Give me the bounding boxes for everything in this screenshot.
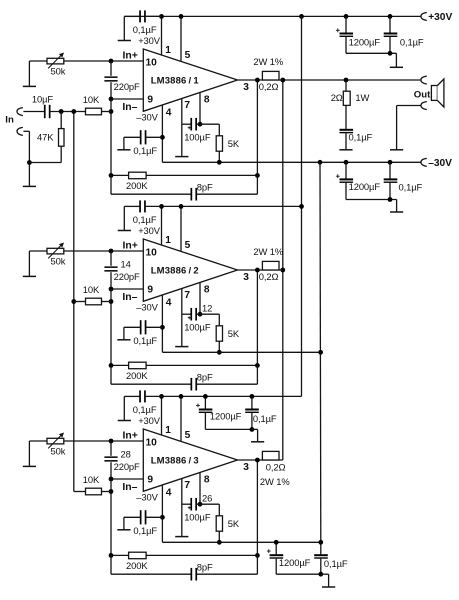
svg-text:0,1µF: 0,1µF (133, 335, 157, 346)
svg-text:50k: 50k (51, 446, 66, 457)
+30V feed bus to amps 2,3 (301, 16, 303, 396)
output bus wire (283, 79, 421, 81)
wire In- to op-amp (amp 1) (111, 98, 143, 100)
svg-text:LM3886 / 2: LM3886 / 2 (151, 266, 199, 277)
capacitor 0,1uF (+30V) (389, 16, 391, 32)
capacitor 100uF mute (amp 2) (182, 313, 191, 315)
connector Out (return) (421, 102, 427, 110)
-30V supply rail (162, 161, 420, 163)
capacitor 0,1uF (amp 3 -30V) (320, 542, 322, 554)
ground (pot) (amp 3) (28, 441, 30, 466)
svg-text:+30V: +30V (138, 225, 161, 236)
svg-text:0,1µF: 0,1µF (324, 558, 348, 569)
-30V local rail (amp 3) (162, 541, 320, 543)
svg-text:4: 4 (166, 298, 172, 309)
svg-text:7: 7 (184, 480, 190, 491)
potentiometer 50k (amp 2) (29, 250, 47, 252)
resistor 5K mute (amp 3) (200, 503, 219, 505)
feedback wire from output (amp 1) (256, 80, 258, 175)
svg-text:8pF: 8pF (197, 181, 213, 192)
svg-text:14: 14 (121, 258, 131, 269)
ground (Zobel) (339, 149, 352, 151)
capacitor 8pF feedback (amp 1) (110, 175, 112, 194)
op-amp U1 LM3886/1 (143, 49, 237, 111)
capacitor 1200uF (-30V) (345, 162, 347, 178)
capacitor 0.1uF -30V decoupling (amp 2) (146, 326, 163, 328)
capacitor 0.1uF -30V decoupling (amp 1) (146, 136, 163, 138)
ground (+30V decoupling) (amp 1) (123, 16, 125, 40)
wire inverting-input node (amp 3) (110, 479, 112, 555)
svg-text:2Ω: 2Ω (331, 92, 343, 103)
svg-text:200K: 200K (126, 370, 148, 381)
svg-text:7: 7 (184, 100, 190, 111)
svg-text:0,1µF: 0,1µF (133, 525, 157, 536)
svg-text:Out: Out (414, 90, 431, 101)
ground (pot) (amp 1) (28, 61, 30, 86)
svg-text:+30V: +30V (428, 12, 452, 23)
pin 1 wire (amp 3) (161, 396, 163, 435)
output wire pin 3 (amp 2) (238, 269, 283, 271)
pin 5 wire (amp 2) (180, 206, 182, 251)
capacitor 0.1uF +30V decoupling (amp 1) (124, 15, 140, 17)
ground (pin 7) (amp 1) (175, 156, 188, 158)
ground (+30V decoupling) (amp 2) (123, 206, 125, 230)
wire In- to op-amp (amp 3) (111, 478, 143, 480)
svg-text:220pF: 220pF (114, 271, 140, 282)
svg-text:9: 9 (147, 474, 153, 485)
wire cap bottoms (amp 3 -30V) (276, 573, 321, 575)
svg-text:0,2Ω: 0,2Ω (259, 271, 279, 282)
svg-text:10K: 10K (83, 474, 100, 485)
resistor 10K (amp 3) (86, 488, 102, 495)
ground (pot) (amp 2) (28, 251, 30, 276)
svg-text:28: 28 (121, 448, 131, 459)
capacitor 1200uF (+30V) (345, 16, 347, 32)
ground (amp 3 +30V caps) (252, 428, 258, 430)
connector Out (hot) (421, 76, 427, 84)
capacitor 100uF mute (amp 3) (182, 503, 191, 505)
input connector In (hot) (17, 108, 23, 116)
svg-text:In: In (5, 114, 14, 125)
svg-text:10: 10 (146, 248, 158, 259)
wire cap bottoms (+30V) (346, 52, 396, 54)
svg-text:0,2Ω: 0,2Ω (266, 462, 286, 473)
op-amp U2 LM3886/2 (143, 239, 237, 301)
wire inverting-input node (amp 1) (110, 99, 112, 175)
wire 10K feed (amp 3) (74, 491, 86, 493)
svg-text:10: 10 (146, 58, 158, 69)
capacitor 0.1uF +30V decoupling (amp 2) (124, 205, 140, 207)
capacitor 0,1uF Zobel (340, 129, 354, 131)
svg-text:100µF: 100µF (184, 131, 211, 142)
capacitor 0.1uF +30V decoupling (amp 3) (124, 395, 140, 397)
capacitor 220pF (amp 2) (110, 251, 112, 266)
output wire pin 3 (amp 1) (238, 79, 283, 81)
svg-text:0,2Ω: 0,2Ω (259, 81, 279, 92)
resistor 200K feedback (amp 2) (111, 364, 129, 366)
svg-text:LM3886 / 3: LM3886 / 3 (151, 456, 199, 467)
svg-text:7: 7 (184, 290, 190, 301)
svg-text:5: 5 (185, 240, 191, 251)
potentiometer 50k (amp 1) (29, 60, 47, 62)
resistor 47K input (60, 112, 62, 129)
node 47K junction (59, 109, 64, 114)
svg-text:8: 8 (204, 474, 210, 485)
resistor 2 Ohm Zobel (345, 80, 347, 91)
svg-text:47K: 47K (37, 131, 54, 142)
svg-text:LM3886 / 1: LM3886 / 1 (151, 76, 200, 87)
svg-text:9: 9 (147, 284, 153, 295)
svg-text:12: 12 (202, 302, 212, 313)
svg-text:100µF: 100µF (184, 511, 211, 522)
svg-text:1: 1 (165, 45, 171, 56)
svg-text:10: 10 (146, 438, 158, 449)
svg-text:0,1µF: 0,1µF (399, 181, 423, 192)
pin 8 wire (amp 1) (199, 93, 201, 125)
svg-text:3: 3 (243, 82, 249, 93)
pin 7 wire (amp 3) (181, 479, 183, 537)
resistor 200K feedback (amp 3) (111, 554, 129, 556)
svg-text:200K: 200K (126, 180, 148, 191)
wire speaker return (397, 105, 421, 107)
node In+ junction (amp 2) (109, 249, 114, 254)
loudspeaker (431, 86, 437, 101)
svg-text:5K: 5K (228, 328, 240, 339)
ground (-30V decoupling) (amp 2) (123, 327, 125, 339)
potentiometer 50k (amp 3) (29, 440, 47, 442)
svg-text:2W 1%: 2W 1% (260, 476, 290, 487)
wire inverting-input node (amp 2) (110, 289, 112, 365)
ground (input) (23, 185, 36, 187)
pin 8 wire (amp 2) (199, 283, 201, 315)
svg-text:0,1µF: 0,1µF (400, 36, 424, 47)
ground (-30V decoupling) (amp 3) (123, 517, 125, 529)
capacitor 100uF mute (amp 1) (182, 123, 191, 125)
ground (-30V decoupling) (amp 1) (123, 137, 125, 149)
svg-text:220pF: 220pF (114, 461, 140, 472)
ground (pin 7) (amp 3) (175, 536, 188, 538)
svg-text:4: 4 (166, 108, 172, 119)
svg-text:5K: 5K (228, 138, 240, 149)
svg-text:0,1µF: 0,1µF (133, 214, 157, 225)
-30V feed bus to amps 2,3 (319, 162, 322, 542)
pin 8 wire (amp 3) (199, 473, 201, 505)
resistor 0,2 Ohm ballast (amp 3) (262, 451, 279, 460)
svg-text:1W: 1W (355, 92, 369, 103)
resistor 0,2 Ohm ballast (amp 1) (262, 71, 279, 80)
pin 5 wire (amp 1) (180, 16, 182, 61)
svg-text:–30V: –30V (428, 158, 452, 169)
pin 7 wire (amp 1) (181, 99, 183, 157)
+30V supply rail (124, 15, 421, 17)
svg-text:10µF: 10µF (32, 94, 54, 105)
+30V local rail (amp 3) (162, 395, 302, 397)
svg-text:1200µF: 1200µF (349, 181, 381, 192)
svg-text:200K: 200K (126, 560, 148, 571)
svg-text:In+: In+ (123, 50, 138, 61)
input connector In (return) (17, 127, 23, 135)
pin 4 wire -V (amp 1) (161, 105, 163, 162)
svg-text:5: 5 (185, 430, 191, 441)
svg-text:1200µF: 1200µF (210, 410, 242, 421)
svg-text:50k: 50k (51, 66, 66, 77)
output wire pin 3 (amp 3) (238, 459, 283, 461)
svg-text:0,1µF: 0,1µF (133, 24, 157, 35)
feedback wire from output (amp 3) (256, 460, 258, 555)
ground (+30V caps) (395, 53, 397, 67)
svg-text:–30V: –30V (136, 302, 158, 313)
capacitor 1200uF (amp 3 -30V) (275, 542, 277, 554)
node In+ junction (amp 3) (109, 439, 114, 444)
svg-text:In+: In+ (123, 430, 138, 441)
capacitor 0.1uF -30V decoupling (amp 3) (146, 516, 163, 518)
pin 5 wire (amp 3) (180, 396, 182, 441)
ground (+30V decoupling) (amp 3) (123, 396, 125, 420)
svg-text:2W 1%: 2W 1% (253, 246, 283, 257)
capacitor 220pF (amp 1) (110, 61, 112, 76)
svg-text:+30V: +30V (138, 415, 161, 426)
capacitor 8pF feedback (amp 2) (110, 365, 112, 384)
svg-text:4: 4 (166, 488, 172, 499)
svg-text:–30V: –30V (136, 492, 158, 503)
ground (speaker return) (390, 149, 403, 151)
capacitor 220pF (amp 3) (110, 441, 112, 456)
svg-text:8: 8 (204, 94, 210, 105)
pin 4 wire -V (amp 2) (161, 295, 163, 352)
connector -30V (421, 158, 427, 166)
svg-text:26: 26 (202, 492, 212, 503)
svg-text:10K: 10K (83, 94, 100, 105)
svg-text:5K: 5K (228, 518, 240, 529)
feedback wire from output (amp 2) (256, 270, 258, 365)
svg-text:2W 1%: 2W 1% (253, 56, 283, 67)
pin 7 wire (amp 2) (181, 289, 183, 347)
capacitor 10uF input (23, 111, 44, 113)
+30V local rail (amp 2) (162, 205, 302, 207)
wire cap bottoms (amp 3 +30V) (205, 428, 252, 430)
pin 4 wire -V (amp 3) (161, 485, 163, 542)
wire cap bottoms (-30V) (346, 199, 397, 201)
capacitor 1200uF (amp 3 +30V) (204, 396, 206, 408)
wire input return (23, 130, 29, 132)
resistor 10K (amp 2) (86, 298, 102, 305)
ground (pin 7) (amp 2) (175, 346, 188, 348)
svg-text:3: 3 (243, 272, 249, 283)
svg-text:–30V: –30V (136, 112, 158, 123)
resistor 5K mute (amp 1) (200, 123, 219, 125)
svg-text:1200µF: 1200µF (349, 36, 381, 47)
ground (amp 3 -30V caps) (321, 573, 329, 575)
resistor 0,2 Ohm ballast (amp 2) (262, 261, 279, 270)
svg-text:In+: In+ (123, 240, 138, 251)
connector +30V (421, 13, 427, 21)
svg-text:100µF: 100µF (184, 321, 211, 332)
node In+ junction (amp 1) (109, 59, 114, 64)
svg-text:8pF: 8pF (197, 371, 213, 382)
svg-text:+30V: +30V (138, 35, 161, 46)
-30V local rail (amp 2) (162, 351, 320, 353)
pin 1 wire (amp 2) (161, 206, 163, 245)
wire In- to op-amp (amp 2) (111, 288, 143, 290)
svg-text:50k: 50k (51, 256, 66, 267)
svg-text:0,1µF: 0,1µF (349, 132, 373, 143)
svg-text:8: 8 (204, 284, 210, 295)
svg-text:0,1µF: 0,1µF (133, 145, 157, 156)
resistor 200K feedback (amp 1) (111, 174, 129, 176)
resistor 5K mute (amp 2) (200, 313, 219, 315)
svg-text:220pF: 220pF (114, 81, 140, 92)
resistor 10K (amp 1) (86, 108, 102, 115)
svg-text:9: 9 (147, 94, 153, 105)
capacitor 0,1uF (-30V) (389, 162, 391, 178)
svg-text:1: 1 (165, 425, 171, 436)
pin 1 wire (amp 1) (161, 16, 163, 55)
svg-text:1: 1 (165, 235, 171, 246)
svg-text:0,1µF: 0,1µF (253, 413, 277, 424)
capacitor 8pF feedback (amp 3) (110, 555, 112, 574)
svg-text:5: 5 (185, 50, 191, 61)
input feed bus to amps 2,3 (73, 112, 75, 492)
svg-text:1200µF: 1200µF (279, 557, 311, 568)
ground (-30V caps) (396, 200, 398, 212)
svg-text:0,1µF: 0,1µF (133, 404, 157, 415)
svg-text:3: 3 (243, 462, 249, 473)
output bus to amps 2,3 (282, 80, 284, 460)
svg-text:10K: 10K (83, 284, 100, 295)
capacitor 0,1uF (amp 3 +30V) (251, 396, 253, 408)
svg-text:8pF: 8pF (197, 561, 213, 572)
wire 10K feed (amp 2) (74, 301, 86, 303)
op-amp U3 LM3886/3 (143, 429, 237, 491)
